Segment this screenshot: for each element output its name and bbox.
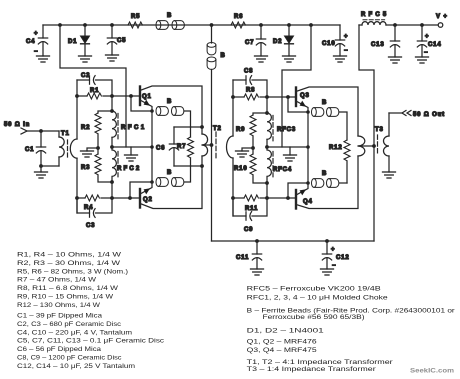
wire RFC ground tie stage1	[112, 146, 152, 148]
capacitor C5	[107, 25, 126, 55]
transformer T3 secondary	[384, 113, 390, 172]
wire RFC5 to V+	[386, 24, 438, 26]
svg-text:+: +	[425, 34, 429, 40]
ground under C14	[416, 57, 429, 63]
resistor R5	[128, 14, 142, 28]
svg-text:R10: R10	[234, 166, 248, 172]
diode D2	[273, 25, 293, 56]
svg-text:C1 – 39 pF Dipped Mica: C1 – 39 pF Dipped Mica	[17, 314, 103, 320]
transistor Q4	[296, 156, 358, 209]
wire bottom supply rail	[212, 240, 375, 242]
node tank top right	[200, 125, 204, 129]
svg-text:R2, R3 – 30 Ohms, 1/4 W: R2, R3 – 30 Ohms, 1/4 W	[17, 261, 120, 267]
svg-text:C10: C10	[322, 41, 336, 47]
node C5	[110, 23, 114, 27]
resistor R7	[177, 127, 194, 166]
wire RFC5 left feed down to V+ distribution	[359, 25, 374, 241]
svg-text:C3: C3	[86, 223, 95, 229]
wire Q4 base to beads	[288, 183, 308, 198]
svg-text:V +: V +	[436, 14, 448, 20]
resistor R3	[81, 148, 112, 182]
capacitor C12	[322, 241, 349, 269]
svg-text:C12, C14 – 10 μF, 25 V Tantalu: C12, C14 – 10 μF, 25 V Tantalum	[17, 364, 135, 370]
resistor R12	[329, 140, 350, 183]
transformer T2 core	[215, 132, 217, 158]
wire Q3 emitter column	[307, 112, 309, 183]
capacitor C7	[245, 25, 266, 56]
diode D1	[68, 25, 89, 56]
svg-text:+: +	[331, 247, 335, 253]
node R4/C3 junction	[110, 196, 114, 200]
wire to ground R9R10	[242, 148, 253, 151]
node T3 tap	[372, 144, 376, 148]
node R8 left	[231, 95, 235, 99]
svg-text:C2, C3 – 680 pF Ceramic Disc: C2, C3 – 680 pF Ceramic Disc	[17, 322, 121, 328]
node RFC4 bottom	[265, 181, 269, 185]
capacitor C8	[233, 69, 267, 98]
wire beads s2 row1 to R12	[339, 112, 347, 140]
node emitter column2 top	[306, 110, 310, 114]
wire RFC2 to R4 rail	[111, 182, 113, 198]
wire to ground R2R3	[87, 148, 98, 151]
svg-text:50 Ω Out: 50 Ω Out	[413, 112, 445, 118]
node C14	[420, 23, 424, 27]
svg-text:T3 – 1:4 Impedance Transformer: T3 – 1:4 Impedance Transformer	[247, 367, 376, 373]
node R11 left	[231, 196, 235, 200]
inductor RFC5	[359, 12, 387, 25]
ground RFC1/RFC2	[125, 147, 138, 161]
node junction C4 corner	[42, 25, 44, 38]
transformer T3 primary	[358, 136, 365, 156]
capacitor C3	[77, 198, 112, 229]
ground under C4	[37, 56, 50, 62]
capacitor C6	[156, 127, 179, 166]
svg-text:T1: T1	[61, 131, 70, 137]
choke RFC3	[267, 113, 296, 147]
node D1	[83, 23, 87, 27]
output arrow	[402, 111, 411, 116]
svg-text:C9: C9	[244, 227, 253, 233]
svg-text:R4: R4	[84, 205, 93, 211]
ground under C12	[321, 269, 334, 275]
svg-text:T3: T3	[375, 127, 384, 133]
wire tank bottom	[174, 165, 202, 167]
capacitor C14	[417, 25, 441, 57]
choke RFC4	[267, 147, 292, 183]
ferrite bead B s2 row2 a	[312, 179, 324, 188]
node R9/R10 junction	[251, 146, 255, 150]
svg-text:B: B	[221, 53, 226, 59]
svg-text:+: +	[34, 31, 38, 37]
svg-text:T2: T2	[213, 126, 222, 132]
svg-text:D1, D2 – 1N4001: D1, D2 – 1N4001	[247, 329, 325, 335]
svg-text:Q1: Q1	[142, 94, 152, 100]
input arrow	[21, 128, 27, 134]
svg-text:−: −	[332, 263, 336, 269]
svg-text:R8, R11 – 6.8 Ohms, 1/4 W: R8, R11 – 6.8 Ohms, 1/4 W	[17, 286, 118, 292]
svg-text:R2: R2	[81, 125, 90, 131]
node emitter column bottom	[150, 180, 154, 184]
svg-text:R12 – 130 Ohms, 1/4 W: R12 – 130 Ohms, 1/4 W	[17, 303, 100, 309]
ground under D1	[79, 56, 92, 62]
node R1 left	[75, 94, 79, 98]
capacitor C1	[25, 131, 46, 166]
svg-text:C6: C6	[156, 146, 165, 152]
svg-text:R7 – 47 Ohms, 1/4 W: R7 – 47 Ohms, 1/4 W	[17, 278, 96, 284]
wire T3 center tap	[358, 145, 374, 147]
node C11	[255, 239, 259, 243]
svg-text:C4, C10 – 220 μF, 4 V, Tantalu: C4, C10 – 220 μF, 4 V, Tantalum	[17, 330, 132, 336]
svg-text:T1, T2 – 4:1 Impedance Transfo: T1, T2 – 4:1 Impedance Transformer	[247, 360, 393, 366]
svg-text:RFC2: RFC2	[117, 166, 140, 172]
svg-text:Q4: Q4	[303, 199, 313, 205]
transformer T3 core	[377, 135, 379, 153]
node C2/R2 junction on base wire	[110, 94, 114, 98]
wire Q2 base to beads	[130, 182, 152, 198]
ferrite bead B s2 row1 a	[312, 108, 324, 117]
choke RFC1	[112, 111, 145, 147]
svg-text:B: B	[167, 170, 172, 176]
capacitor C4	[26, 31, 48, 56]
transistor Q2	[140, 166, 202, 209]
node R2/RFC1 top	[110, 109, 114, 113]
wire tank top	[174, 126, 202, 128]
node C1 top	[39, 129, 43, 133]
node R11/C9 junction	[265, 196, 269, 200]
resistor R9	[236, 113, 267, 148]
node R2/R3 junction	[96, 146, 100, 150]
wire top rail	[43, 24, 340, 26]
ferrite bead B s2 row2 b	[327, 179, 339, 188]
node bias takeoff stage1	[58, 23, 62, 27]
transistor Q3	[296, 87, 358, 136]
node supply column takeoff	[210, 23, 214, 27]
ground under D2	[283, 56, 296, 62]
svg-text:R6: R6	[234, 14, 243, 20]
svg-text:D2: D2	[273, 39, 282, 45]
wire T2 center tap	[202, 144, 212, 146]
resistor R8	[233, 88, 296, 101]
ferrite bead B s1 row2 a	[156, 178, 168, 187]
node Q3 base bead takeoff	[286, 95, 290, 99]
ferrite bead B supply 2	[207, 57, 216, 69]
svg-text:R12: R12	[329, 145, 343, 151]
node Q1 base bead takeoff	[129, 94, 133, 98]
svg-text:C4: C4	[26, 39, 35, 45]
ferrite bead B s1 row1 a	[156, 107, 168, 116]
svg-text:C5, C7, C11, C13 – 0.1 μF Cera: C5, C7, C11, C13 – 0.1 μF Ceramic Disc	[17, 339, 164, 345]
node RFC2 bottom	[110, 180, 114, 184]
wire T1 bottom return	[41, 166, 59, 172]
node tank bottom right	[200, 164, 204, 168]
ground input	[35, 172, 48, 178]
ground R9R10	[236, 151, 249, 157]
node T2 tap	[210, 143, 214, 147]
ferrite bead B rail left 1	[156, 21, 168, 30]
node bias takeoff stage2	[309, 23, 313, 27]
node C13	[393, 23, 397, 27]
wire input	[27, 130, 59, 132]
svg-text:C6 – 56 pF Dipped Mica: C6 – 56 pF Dipped Mica	[17, 347, 102, 353]
node emitter column mid ground	[150, 145, 154, 149]
ground under C7	[255, 56, 268, 62]
svg-text:+: +	[344, 34, 348, 40]
svg-text:RFC1, 2, 3, 4 – 10 μH Molded C: RFC1, 2, 3, 4 – 10 μH Molded Choke	[247, 295, 389, 301]
terminal V+	[436, 14, 448, 27]
transformer T2 secondary	[227, 136, 233, 158]
wire Q3 base to beads	[288, 97, 308, 112]
choke RFC2	[112, 147, 140, 182]
svg-text:−: −	[344, 48, 348, 54]
node R4 left	[75, 196, 79, 200]
svg-text:B: B	[167, 13, 172, 19]
ferrite bead B s2 row1 b	[327, 108, 339, 117]
svg-text:R1: R1	[90, 88, 99, 94]
resistor R2	[81, 111, 112, 148]
wire output	[389, 112, 402, 114]
wire beads row2 to tank	[184, 166, 191, 182]
capacitor C11	[236, 241, 262, 269]
ferrite bead B rail left 2	[172, 21, 184, 30]
wire beads row1 to tank	[184, 111, 191, 127]
svg-text:RFC4: RFC4	[273, 167, 292, 173]
capacitor C2	[77, 73, 112, 96]
ground T3 secondary	[383, 172, 396, 178]
svg-text:C1: C1	[25, 147, 34, 153]
svg-text:SeekIC.com: SeekIC.com	[410, 368, 454, 375]
transformer T2 primary	[202, 127, 208, 166]
svg-text:Ferroxcube #56 590 65/3B): Ferroxcube #56 590 65/3B)	[263, 315, 365, 321]
svg-text:C5: C5	[117, 38, 126, 44]
svg-text:R5: R5	[131, 14, 140, 20]
svg-text:B – Ferrite Beads (Fair-Rite P: B – Ferrite Beads (Fair-Rite Prod. Corp.…	[247, 308, 455, 314]
wire R2 RFC1 tee	[111, 96, 113, 111]
svg-text:R1, R4 – 10 Ohms, 1/4 W: R1, R4 – 10 Ohms, 1/4 W	[17, 253, 121, 259]
node RFC1 bottom	[110, 145, 114, 149]
svg-text:R8: R8	[246, 88, 255, 94]
capacitor C9	[233, 198, 267, 233]
wire supply column stage1	[211, 25, 213, 241]
svg-text:RFC1: RFC1	[121, 125, 145, 131]
node C7	[259, 23, 263, 27]
wire bias feed stage2	[282, 25, 311, 147]
transformer T1 core	[67, 140, 69, 157]
svg-text:C8: C8	[244, 69, 253, 75]
svg-text:C12: C12	[336, 255, 350, 261]
resistor R6	[231, 14, 245, 28]
node D2	[287, 23, 291, 27]
node Q2 base bead takeoff	[128, 196, 132, 200]
transformer T1 primary	[59, 131, 70, 166]
node R9/RFC3 top	[265, 111, 269, 115]
svg-text:C2: C2	[81, 73, 90, 79]
svg-text:RFC5: RFC5	[361, 12, 387, 18]
resistor R4	[77, 195, 140, 211]
ground R2R3	[81, 151, 94, 157]
wire left rail stage2	[232, 80, 234, 216]
node RFC3 bottom	[265, 145, 269, 149]
svg-text:C8, C9 – 1200 pF Ceramic Disc: C8, C9 – 1200 pF Ceramic Disc	[17, 356, 121, 362]
svg-text:Q2: Q2	[143, 197, 153, 203]
wire left rail stage1	[76, 80, 78, 213]
resistor R10	[234, 148, 267, 183]
svg-text:R5, R6 – 82 Ohms, 3 W (Nom.): R5, R6 – 82 Ohms, 3 W (Nom.)	[17, 269, 128, 275]
node C12	[325, 239, 329, 243]
resistor R11	[233, 195, 296, 212]
svg-text:B: B	[322, 171, 327, 177]
svg-text:D1: D1	[68, 39, 77, 45]
svg-text:R9: R9	[236, 127, 245, 133]
svg-text:R7: R7	[177, 144, 186, 150]
node C8/R9 junction on base wire	[265, 95, 269, 99]
wire RFC4 to R11 rail	[266, 183, 268, 198]
wire RFC ground tie stage2	[267, 146, 308, 148]
ground under C11	[251, 269, 264, 275]
svg-text:−: −	[34, 49, 38, 55]
svg-text:50 Ω In: 50 Ω In	[4, 122, 30, 128]
capacitor C13	[371, 25, 400, 57]
svg-text:RFC5 – Ferroxcube VK200 19/4B: RFC5 – Ferroxcube VK200 19/4B	[247, 287, 381, 293]
svg-text:R9, R10 – 15 Ohms, 1/4 W: R9, R10 – 15 Ohms, 1/4 W	[17, 295, 113, 301]
resistor R1	[77, 88, 140, 99]
ground under C10	[334, 56, 347, 62]
node emitter column2 bottom	[306, 181, 310, 185]
svg-text:B: B	[167, 99, 172, 105]
svg-text:C11: C11	[236, 255, 249, 261]
svg-text:R3: R3	[81, 165, 90, 171]
svg-text:C14: C14	[428, 42, 442, 48]
node emitter column top	[150, 109, 154, 113]
wire beads s2 row2 to R12	[339, 182, 347, 184]
wire bias feed stage1	[60, 25, 126, 147]
ferrite bead B supply 1	[207, 43, 216, 55]
transistor Q1	[140, 86, 202, 127]
svg-text:B: B	[322, 100, 327, 106]
svg-text:Q1, Q2 – MRF476: Q1, Q2 – MRF476	[247, 340, 318, 346]
wire Q1 emitter column	[151, 111, 153, 182]
capacitor C10	[322, 25, 348, 56]
ground under C13	[389, 57, 402, 63]
svg-text:RFC3: RFC3	[277, 127, 296, 133]
ferrite bead B s1 row2 b	[172, 178, 184, 187]
svg-text:C13: C13	[371, 42, 385, 48]
wire Q1 base to beads	[131, 96, 152, 111]
svg-text:Q3, Q4 – MRF475: Q3, Q4 – MRF475	[247, 348, 318, 354]
node emitter column2 mid	[306, 145, 310, 149]
transformer T1 secondary	[70, 139, 77, 158]
node Q4 base bead takeoff	[286, 196, 290, 200]
svg-text:−: −	[424, 50, 428, 56]
svg-text:Q3: Q3	[300, 93, 310, 99]
svg-text:C7: C7	[245, 40, 254, 46]
node C1 bottom	[39, 164, 43, 168]
ferrite bead B s1 row1 b	[172, 107, 184, 116]
ground RFC3/RFC4	[284, 147, 297, 161]
ground under C5	[106, 55, 119, 61]
wire R9 RFC3 tee	[266, 97, 268, 113]
